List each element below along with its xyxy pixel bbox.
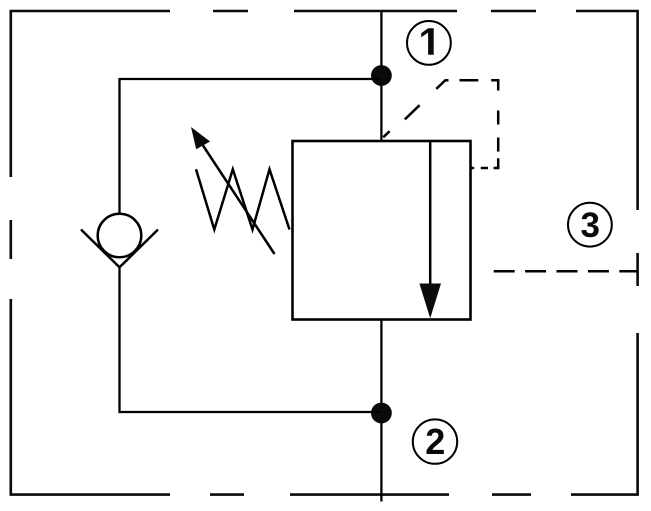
flow path arrow stem inside valve: [429, 141, 432, 287]
check valve CV1: seat V: [81, 230, 158, 268]
adjustment arrow shaft (crosses spring): [203, 146, 275, 255]
port 3 label circle: [568, 203, 612, 247]
port 2 label circle: [413, 419, 457, 463]
wire: lower branch from check valve: [120, 267, 382, 412]
port 1 label text (digit 1 drawn as path, no-foot style): [421, 28, 434, 54]
svg-text:2: 2: [425, 421, 445, 462]
spring (zigzag): [196, 169, 290, 229]
node: junction dot at port 1: [371, 65, 392, 86]
adjustment arrowhead: [191, 127, 210, 149]
port 1 label circle: [407, 21, 451, 65]
node: junction dot at port 2: [371, 403, 392, 424]
relief valve body (square envelope): [293, 141, 471, 320]
wire: port 1 vertical line from top border to valve: [380, 11, 382, 141]
wire: valve bottom to port 2, through bottom border: [380, 320, 382, 502]
check valve CV1: ball circle: [98, 214, 142, 258]
flow path arrowhead: [419, 284, 441, 319]
svg-text:3: 3: [580, 206, 599, 245]
wire: upper branch to check valve: [120, 79, 382, 214]
port 3 dashed line to right border: [494, 270, 638, 273]
pilot line (dashed) from port 1 junction to valve right side: [383, 80, 498, 168]
